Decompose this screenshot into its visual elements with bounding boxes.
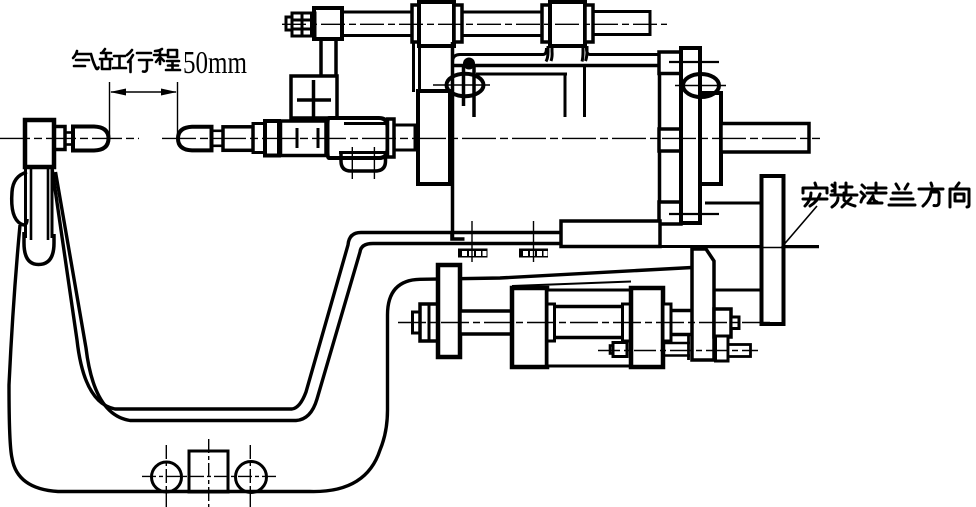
right end cap	[631, 288, 663, 367]
char 行	[127, 50, 152, 72]
crosshair horizontal	[142, 475, 279, 477]
top pad	[659, 52, 681, 74]
connector line upper	[705, 202, 762, 205]
block C	[550, 2, 585, 46]
anvil tip (bullet)	[73, 127, 109, 151]
anvil block	[25, 120, 54, 167]
inner top line right segment	[587, 48, 660, 55]
serrated foot 1	[458, 249, 488, 258]
rod segment 1	[342, 12, 412, 36]
rear plate	[700, 93, 721, 184]
front flange plate	[681, 48, 700, 223]
left hole	[152, 462, 182, 492]
neck	[65, 133, 73, 145]
washer	[253, 124, 265, 153]
connector line lower	[714, 289, 762, 292]
collar	[412, 5, 419, 42]
threaded section	[292, 13, 315, 36]
foot centerline 2	[533, 221, 535, 262]
char 法	[861, 183, 886, 203]
char 安	[803, 183, 827, 206]
valve bottom bulge	[341, 153, 386, 172]
inner top line left segment with corner and hook	[453, 48, 547, 61]
long bottom line to flange plate	[561, 245, 819, 248]
left nut	[420, 304, 438, 341]
body top edge	[453, 64, 660, 68]
block C right leg	[582, 46, 587, 62]
left pad	[418, 91, 450, 184]
char 向	[950, 183, 969, 207]
left end cap	[512, 288, 547, 367]
rod end vertical	[687, 334, 690, 360]
char 装	[831, 183, 857, 207]
anvil sleeve rounded bottom	[24, 232, 54, 265]
lower rod right nut	[716, 336, 729, 361]
rod segment 3	[593, 12, 650, 35]
lower rod tip	[728, 345, 751, 357]
svg-text:50mm: 50mm	[183, 44, 247, 80]
collar	[454, 5, 462, 42]
cylinder barrel	[281, 121, 327, 156]
support block A	[314, 8, 342, 39]
hidden edge lines	[669, 61, 719, 63]
right nut	[714, 309, 731, 337]
left ellipse fitting	[447, 74, 484, 96]
anvil sleeve inner walls	[30, 167, 33, 240]
bottom pad	[659, 202, 681, 224]
pivot dot	[463, 58, 475, 70]
extension line left	[109, 82, 111, 139]
char 程	[154, 49, 180, 70]
extension line right	[177, 82, 179, 139]
dimension arrow	[111, 91, 176, 93]
char 气	[73, 51, 99, 69]
step block	[561, 221, 660, 247]
foot centerline 1	[471, 221, 473, 262]
tie rods	[555, 305, 623, 309]
frame inner wall line 1	[52, 168, 561, 409]
valve body	[328, 118, 388, 158]
body right edge	[658, 54, 662, 221]
column with chamfer	[692, 249, 714, 360]
nut tip	[731, 317, 739, 329]
crosshair verticals	[165, 445, 167, 507]
body left edge	[451, 42, 455, 239]
lower tie rod (behind)	[627, 342, 690, 345]
char 缸	[100, 49, 126, 69]
block C left leg	[546, 46, 552, 62]
flange	[265, 121, 279, 156]
top rod centerline	[282, 23, 667, 25]
char 方	[919, 183, 943, 206]
valve end plate	[388, 119, 395, 157]
left bolt head	[413, 312, 421, 333]
piston rod	[460, 311, 512, 334]
mid pad	[659, 129, 681, 151]
internal partition lines	[476, 73, 567, 76]
neck	[212, 131, 224, 146]
right strip	[663, 304, 671, 341]
shaft to body	[394, 125, 415, 150]
main axis centerline	[0, 137, 139, 139]
internal verticals below dot	[462, 64, 466, 106]
right hole	[236, 462, 267, 493]
left hook clip	[12, 172, 27, 225]
lower rod left nut	[610, 346, 613, 354]
leader line	[781, 206, 817, 248]
frame outer contour + shelf line to lower assembly	[9, 225, 692, 492]
eccentric ellipse	[683, 74, 719, 97]
mounting plate	[438, 265, 460, 357]
serrated foot 2	[519, 249, 548, 258]
rod to column	[671, 309, 692, 313]
bolt centerlines in bulge	[351, 147, 353, 179]
stem below block A	[319, 39, 323, 77]
lower tie rod centerline	[598, 350, 758, 352]
body bottom notch	[452, 233, 465, 239]
spindle tip (bullet)	[178, 127, 212, 151]
support column below collar at 412	[412, 42, 415, 92]
frame inner wall line 2	[56, 172, 562, 421]
line through plate	[697, 247, 819, 249]
square boss	[189, 451, 228, 492]
barrel	[547, 290, 631, 366]
threaded end cap	[286, 17, 292, 30]
char 兰	[889, 184, 915, 205]
second shelf line	[512, 282, 631, 287]
output shaft	[721, 124, 809, 153]
anvil sleeve outer walls	[24, 167, 27, 238]
rod segment 2	[462, 12, 542, 36]
lower cylinder centerline	[398, 322, 772, 324]
collar	[542, 5, 550, 42]
collar	[585, 5, 593, 42]
pilot valve block with cross	[291, 76, 337, 118]
rod flange strips	[547, 304, 555, 341]
rod	[223, 127, 253, 151]
mounting flange plate	[762, 176, 784, 324]
block B	[419, 2, 454, 46]
small step	[54, 127, 65, 150]
